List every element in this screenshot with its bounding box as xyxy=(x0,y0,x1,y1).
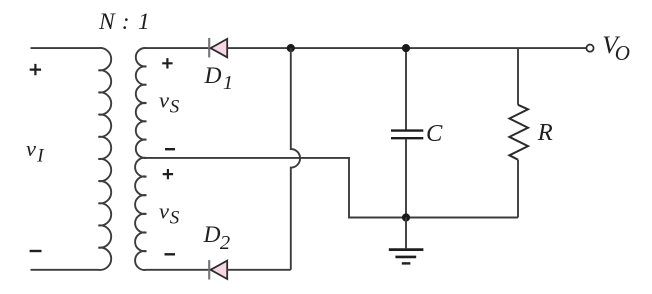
capacitor C bottom plate xyxy=(391,137,423,139)
svg-text:2: 2 xyxy=(220,232,230,254)
resistor R top lead xyxy=(517,48,519,105)
node junction dot D1 output xyxy=(287,44,295,52)
secondary upper minus sign xyxy=(165,148,175,150)
node junction dot capacitor top xyxy=(402,44,410,52)
resistor R bottom lead xyxy=(517,160,519,218)
secondary lower minus sign xyxy=(165,253,176,255)
wire vertical D1-D2 with hop xyxy=(291,48,300,270)
svg-text:1: 1 xyxy=(138,9,150,35)
wire D2 output xyxy=(227,269,291,271)
svg-text:D: D xyxy=(204,63,222,89)
resistor R zigzag xyxy=(509,105,528,160)
capacitor C top lead xyxy=(405,48,407,130)
primary minus sign xyxy=(30,250,42,252)
ground bar 1 xyxy=(389,248,424,251)
svg-text:v: v xyxy=(26,136,36,161)
diode D1 triangle xyxy=(211,39,228,57)
svg-text:S: S xyxy=(170,208,180,229)
svg-text:I: I xyxy=(36,146,45,167)
diode D2 triangle xyxy=(211,261,228,279)
capacitor C bottom lead xyxy=(405,139,407,217)
ground stem xyxy=(405,218,407,249)
primary plus sign xyxy=(30,64,41,75)
svg-text:D: D xyxy=(203,222,221,248)
svg-text:N: N xyxy=(98,9,116,35)
node junction dot ground rail xyxy=(402,213,410,221)
secondary lower plus sign xyxy=(163,169,173,179)
secondary upper plus sign xyxy=(162,58,172,68)
transformer primary winding xyxy=(31,48,112,270)
ground bar 3 xyxy=(402,262,411,264)
capacitor C top plate xyxy=(391,129,423,131)
svg-text:v: v xyxy=(159,198,169,223)
wire D1 output to junction xyxy=(227,47,586,49)
transformer secondary winding xyxy=(135,48,209,270)
diode D1 cathode bar xyxy=(208,38,210,58)
svg-text:R: R xyxy=(537,119,553,146)
wire center tap to ground rail xyxy=(146,158,518,218)
diode D2 cathode bar xyxy=(208,260,210,279)
svg-text:C: C xyxy=(426,120,443,147)
svg-text::: : xyxy=(122,9,130,35)
output terminal circle xyxy=(586,45,593,52)
svg-text:v: v xyxy=(159,88,169,113)
svg-text:1: 1 xyxy=(223,72,233,94)
svg-text:S: S xyxy=(170,97,180,118)
svg-text:O: O xyxy=(615,41,630,65)
ground bar 2 xyxy=(395,256,416,259)
